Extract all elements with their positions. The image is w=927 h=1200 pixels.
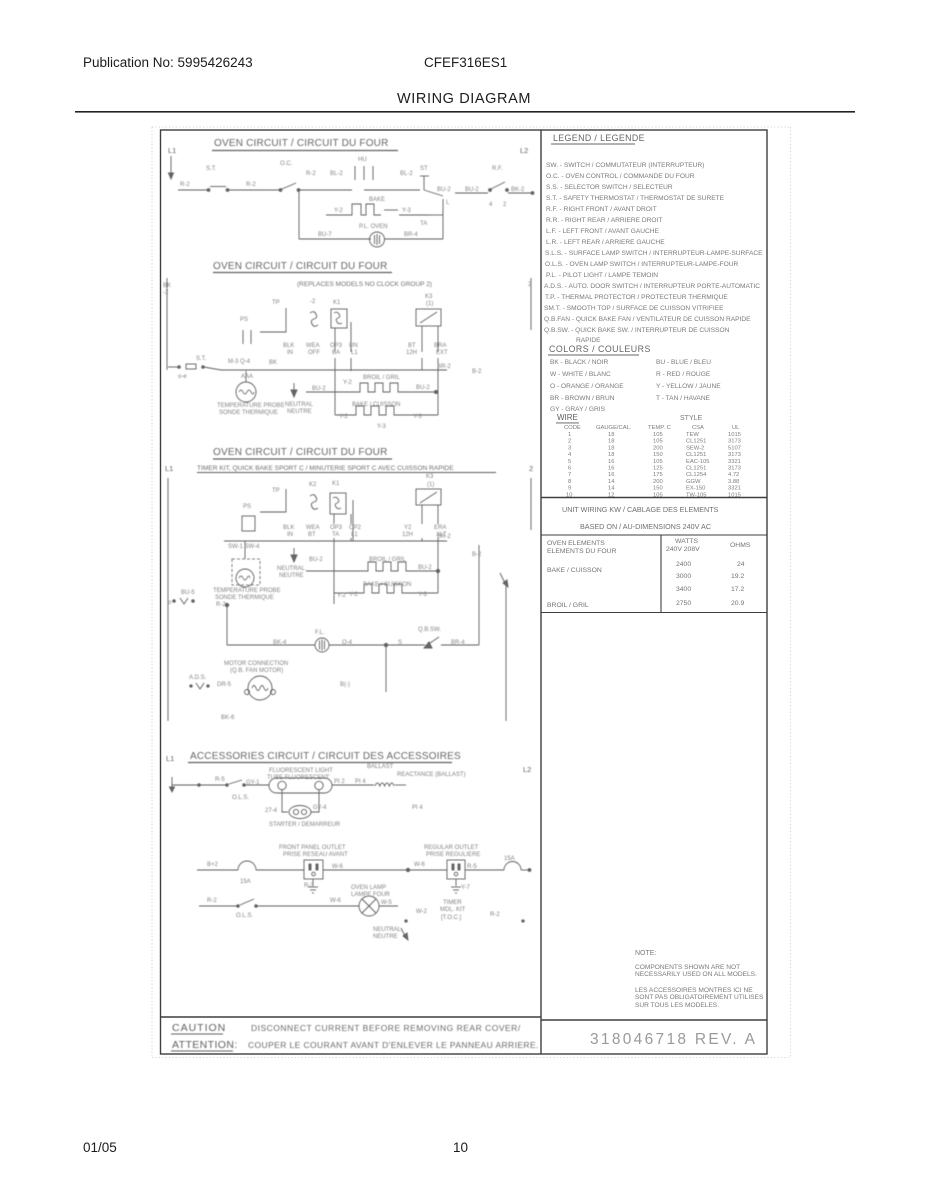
svg-text:NOTE:: NOTE: bbox=[635, 950, 656, 957]
svg-text:BU-5: BU-5 bbox=[181, 590, 195, 596]
svg-text:3173: 3173 bbox=[728, 452, 741, 458]
svg-text:BR-4: BR-4 bbox=[451, 640, 465, 646]
svg-text:2: 2 bbox=[529, 464, 533, 473]
svg-text:Y-3: Y-3 bbox=[418, 592, 427, 598]
svg-text:Y-3: Y-3 bbox=[413, 414, 422, 420]
svg-text:BL-2: BL-2 bbox=[330, 171, 343, 177]
svg-text:COLORS / COULEURS: COLORS / COULEURS bbox=[549, 344, 651, 354]
svg-text:NEUTRAL: NEUTRAL bbox=[277, 566, 306, 572]
svg-text:DISCONNECT CURRENT BEFORE REMO: DISCONNECT CURRENT BEFORE REMOVING REAR … bbox=[251, 1023, 521, 1033]
svg-text:10: 10 bbox=[453, 1140, 468, 1155]
svg-text:-2: -2 bbox=[163, 290, 169, 296]
svg-text:L1: L1 bbox=[168, 146, 176, 155]
svg-text:16: 16 bbox=[608, 472, 614, 478]
svg-text:L1: L1 bbox=[166, 754, 174, 763]
svg-text:7: 7 bbox=[568, 472, 571, 478]
caution box top line bbox=[161, 1016, 542, 1018]
svg-text:Q.B.FAN - QUICK BAKE FAN / VEN: Q.B.FAN - QUICK BAKE FAN / VENTILATEUR D… bbox=[544, 316, 751, 323]
svg-text:CL1254: CL1254 bbox=[686, 472, 707, 478]
svg-text:105: 105 bbox=[653, 439, 663, 445]
svg-text:K3: K3 bbox=[425, 294, 433, 300]
svg-text:W-6: W-6 bbox=[414, 862, 426, 868]
row1 fluorescent bbox=[171, 777, 173, 790]
svg-text:FLUORESCENT LIGHT: FLUORESCENT LIGHT bbox=[269, 768, 333, 774]
svg-text:W-6: W-6 bbox=[332, 864, 344, 870]
svg-text:PI 2: PI 2 bbox=[334, 779, 345, 785]
svg-text:200: 200 bbox=[653, 445, 663, 451]
svg-text:NEUTRAL: NEUTRAL bbox=[285, 402, 314, 408]
svg-text:OVEN ELEMENTS: OVEN ELEMENTS bbox=[547, 540, 605, 547]
svg-text:BA: BA bbox=[332, 350, 340, 356]
svg-text:BROIL / GRIL: BROIL / GRIL bbox=[547, 602, 589, 609]
svg-text:16: 16 bbox=[608, 459, 614, 465]
svg-text:Q.B.SW.: Q.B.SW. bbox=[418, 627, 441, 633]
svg-text:TEMPERATURE PROBE: TEMPERATURE PROBE bbox=[217, 403, 285, 409]
svg-text:K3: K3 bbox=[426, 474, 434, 480]
svg-text:LAMPE FOUR: LAMPE FOUR bbox=[351, 892, 391, 898]
svg-text:NEUTRE: NEUTRE bbox=[287, 409, 312, 415]
svg-text:S.L.S. - SURFACE LAMP SWITCH /: S.L.S. - SURFACE LAMP SWITCH / INTERRUPT… bbox=[545, 250, 763, 257]
svg-text:150: 150 bbox=[653, 486, 663, 492]
footer bbox=[83, 1140, 468, 1155]
svg-text:MDL. KIT: MDL. KIT bbox=[440, 907, 466, 913]
svg-text:BU-2: BU-2 bbox=[312, 386, 326, 392]
svg-text:SEW-2: SEW-2 bbox=[686, 445, 704, 451]
svg-text:OFF: OFF bbox=[308, 350, 320, 356]
svg-text:OHMS: OHMS bbox=[730, 542, 751, 549]
svg-text:Publication No: 5995426243: Publication No: 5995426243 bbox=[83, 55, 253, 70]
svg-text:L.F. - LEFT FRONT / AVANT GA: L.F. - LEFT FRONT / AVANT GAUCHE bbox=[546, 228, 660, 235]
svg-text:UN: UN bbox=[349, 343, 358, 349]
row2 outlets bbox=[197, 869, 238, 871]
ballast coil bbox=[375, 783, 394, 786]
svg-text:18: 18 bbox=[608, 432, 614, 438]
note bbox=[635, 950, 764, 1009]
svg-text:L1: L1 bbox=[351, 350, 358, 356]
PS box bbox=[242, 516, 255, 531]
svg-text:M-3 Q-4: M-3 Q-4 bbox=[228, 359, 251, 365]
K2 relay box bbox=[331, 309, 347, 328]
svg-text:CL1251: CL1251 bbox=[686, 466, 706, 472]
svg-text:B-2: B-2 bbox=[472, 369, 482, 375]
svg-text:27-4: 27-4 bbox=[265, 808, 278, 814]
svg-text:BU-7: BU-7 bbox=[318, 232, 332, 238]
svg-text:Y-2: Y-2 bbox=[339, 414, 348, 420]
svg-text:B-2: B-2 bbox=[472, 552, 482, 558]
svg-text:ERA: ERA bbox=[434, 525, 446, 531]
svg-text:DR-5: DR-5 bbox=[217, 682, 232, 688]
svg-text:BK-4: BK-4 bbox=[273, 640, 287, 646]
K2 relay box bbox=[330, 493, 346, 514]
svg-text:PRISE REGULIERE: PRISE REGULIERE bbox=[426, 852, 480, 858]
elements table bbox=[541, 535, 767, 613]
svg-text:24: 24 bbox=[737, 561, 745, 568]
main rail bbox=[221, 369, 447, 371]
rev cell top line bbox=[541, 1019, 767, 1021]
N arrow right bbox=[500, 573, 506, 585]
svg-text:PRISE RESEAU AVANT: PRISE RESEAU AVANT bbox=[283, 852, 348, 858]
svg-text:L2: L2 bbox=[523, 765, 531, 774]
svg-text:BR-2: BR-2 bbox=[437, 534, 451, 540]
svg-text:O.C. - OVEN CONTROL / COMMAN: O.C. - OVEN CONTROL / COMMANDE DU FOUR bbox=[546, 173, 695, 180]
svg-text:12H: 12H bbox=[406, 350, 417, 356]
svg-text:BAKE / CUISSON: BAKE / CUISSON bbox=[547, 567, 602, 574]
svg-text:L.R. - LEFT REAR / ARRIERE G: L.R. - LEFT REAR / ARRIERE GAUCHE bbox=[546, 239, 665, 246]
junction and drop bbox=[225, 603, 228, 606]
temp probe bbox=[236, 382, 256, 402]
svg-text:Y-2: Y-2 bbox=[337, 593, 346, 599]
svg-text:COMPONENTS SHOWN ARE NOT: COMPONENTS SHOWN ARE NOT bbox=[635, 964, 740, 971]
svg-text:S: S bbox=[398, 640, 402, 646]
svg-text:OVEN CIRCUIT / CIRCUIT DU FOUR: OVEN CIRCUIT / CIRCUIT DU FOUR bbox=[214, 138, 389, 149]
svg-text:18: 18 bbox=[608, 452, 614, 458]
svg-text:SONDE THERMIQUE: SONDE THERMIQUE bbox=[215, 595, 274, 601]
right sub chain bbox=[455, 192, 488, 194]
svg-text:BROIL / GRIL: BROIL / GRIL bbox=[363, 375, 400, 381]
svg-text:EX-150: EX-150 bbox=[686, 486, 705, 492]
svg-text:LEGEND / LEGENDE: LEGEND / LEGENDE bbox=[553, 133, 645, 143]
broil element bbox=[306, 391, 357, 393]
svg-text:REACTANCE (BALLAST): REACTANCE (BALLAST) bbox=[397, 772, 466, 778]
svg-text:BU-2: BU-2 bbox=[465, 187, 479, 193]
svg-text:K1: K1 bbox=[332, 481, 340, 487]
svg-text:BAKE / CUISSON: BAKE / CUISSON bbox=[352, 402, 400, 408]
svg-text:O - ORANGE / ORANGE: O - ORANGE / ORANGE bbox=[550, 383, 624, 390]
svg-text:FRONT PANEL OUTLET: FRONT PANEL OUTLET bbox=[279, 845, 346, 851]
svg-text:STARTER / DEMARREUR: STARTER / DEMARREUR bbox=[269, 822, 341, 828]
svg-text:BT: BT bbox=[408, 343, 416, 349]
svg-text:GY-4: GY-4 bbox=[313, 805, 327, 811]
svg-text:T - TAN / HAVANE: T - TAN / HAVANE bbox=[656, 395, 711, 402]
S curl bbox=[310, 312, 318, 327]
svg-text:R.R. - RIGHT REAR / ARRIERE: R.R. - RIGHT REAR / ARRIERE DROIT bbox=[546, 217, 662, 224]
svg-text:105: 105 bbox=[653, 459, 663, 465]
svg-text:BK-2: BK-2 bbox=[511, 187, 525, 193]
svg-text:NEUTRAL: NEUTRAL bbox=[373, 927, 402, 933]
left rail bbox=[167, 478, 169, 721]
svg-text:K2: K2 bbox=[309, 482, 317, 488]
svg-text:SONDE THERMIQUE: SONDE THERMIQUE bbox=[219, 410, 278, 416]
svg-text:R-2: R-2 bbox=[490, 912, 500, 918]
svg-text:NEUTRE: NEUTRE bbox=[279, 573, 304, 579]
svg-text:EAC-105: EAC-105 bbox=[686, 459, 710, 465]
svg-text:Y-3: Y-3 bbox=[377, 424, 386, 430]
svg-text:R-5: R-5 bbox=[215, 777, 225, 783]
svg-text:STYLE: STYLE bbox=[680, 415, 703, 422]
TP step wire bbox=[260, 489, 286, 512]
svg-text:OP3: OP3 bbox=[330, 525, 343, 531]
svg-text:20.9: 20.9 bbox=[731, 600, 744, 607]
faint scan page margin dotted border bbox=[152, 127, 791, 1058]
svg-text:19.2: 19.2 bbox=[731, 573, 744, 580]
svg-text:GAUGE/CAL.: GAUGE/CAL. bbox=[596, 425, 632, 431]
right rail bbox=[530, 278, 532, 330]
svg-text:o: o bbox=[168, 600, 172, 606]
TP step wire bbox=[260, 308, 286, 332]
svg-text:4: 4 bbox=[568, 452, 572, 458]
svg-text:01/05: 01/05 bbox=[83, 1140, 117, 1155]
svg-text:A.D.S. - AUTO. DOOR SWITCH / I: A.D.S. - AUTO. DOOR SWITCH / INTERRUPTEU… bbox=[544, 283, 760, 290]
svg-text:BR-2: BR-2 bbox=[437, 364, 451, 370]
svg-text:W-2: W-2 bbox=[416, 909, 428, 915]
svg-text:-2: -2 bbox=[310, 299, 316, 305]
broil element bbox=[306, 570, 365, 572]
svg-text:Y-7: Y-7 bbox=[461, 885, 470, 891]
svg-text:S.S. - SELECTOR SWITCH / SEL: S.S. - SELECTOR SWITCH / SELECTEUR bbox=[546, 184, 673, 191]
svg-text:F.L.: F.L. bbox=[315, 630, 325, 636]
svg-text:WIRING DIAGRAM: WIRING DIAGRAM bbox=[397, 91, 531, 107]
temp probe dashed box bbox=[232, 559, 260, 585]
svg-text:[T.O.C.]: [T.O.C.] bbox=[441, 915, 462, 921]
svg-text:GGW: GGW bbox=[686, 479, 701, 485]
svg-text:O.L.S.: O.L.S. bbox=[232, 795, 249, 801]
svg-text:WEA: WEA bbox=[306, 343, 320, 349]
svg-text:TP: TP bbox=[272, 488, 280, 494]
svg-text:16: 16 bbox=[608, 466, 614, 472]
svg-text:BK: BK bbox=[269, 360, 277, 366]
svg-text:UL: UL bbox=[732, 425, 740, 431]
svg-text:BU-2: BU-2 bbox=[309, 557, 323, 563]
row3 oven lamp bbox=[199, 905, 237, 907]
vertical below junction bbox=[385, 645, 387, 692]
K3 relay box bbox=[416, 489, 441, 505]
motor bbox=[248, 676, 272, 700]
svg-text:3400: 3400 bbox=[676, 586, 691, 593]
svg-text:BR - BROWN / BRUN: BR - BROWN / BRUN bbox=[550, 395, 615, 402]
svg-text:TEMPERATURE PROBE: TEMPERATURE PROBE bbox=[213, 588, 281, 594]
svg-text:W - WHITE / BLANC: W - WHITE / BLANC bbox=[550, 371, 611, 378]
svg-text:PI 4: PI 4 bbox=[355, 779, 366, 785]
svg-text:BK: BK bbox=[163, 283, 171, 289]
svg-text:HU: HU bbox=[358, 157, 367, 163]
svg-text:GY - GRAY / GRIS: GY - GRAY / GRIS bbox=[550, 406, 606, 413]
svg-text:12H: 12H bbox=[402, 532, 413, 538]
svg-text:B(-): B(-) bbox=[340, 682, 350, 688]
svg-text:L: L bbox=[446, 200, 450, 206]
svg-text:ACCESSORIES CIRCUIT / CIRCUIT: ACCESSORIES CIRCUIT / CIRCUIT DES ACCESS… bbox=[190, 751, 461, 762]
starter loop bbox=[282, 790, 288, 812]
svg-text:OP2: OP2 bbox=[349, 525, 362, 531]
divider under wire table bbox=[541, 497, 767, 499]
PS capacitor bars bbox=[242, 330, 244, 344]
svg-text:Y-2: Y-2 bbox=[334, 208, 343, 214]
svg-text:BROIL / GRIL: BROIL / GRIL bbox=[369, 557, 406, 563]
svg-text:TA: TA bbox=[420, 221, 427, 227]
svg-text:Y-3: Y-3 bbox=[402, 208, 411, 214]
divider diagram / legend bbox=[540, 130, 542, 1054]
svg-text:Y-2: Y-2 bbox=[349, 592, 358, 598]
S curl bbox=[310, 495, 318, 510]
svg-text:CAUTION: CAUTION bbox=[172, 1022, 226, 1034]
svg-text:L1: L1 bbox=[165, 464, 173, 473]
svg-text:NEUTRE: NEUTRE bbox=[373, 934, 398, 940]
svg-text:EXT: EXT bbox=[436, 350, 448, 356]
svg-text:O.C.: O.C. bbox=[280, 161, 293, 167]
svg-text:OVEN CIRCUIT / CIRCUIT DU FOUR: OVEN CIRCUIT / CIRCUIT DU FOUR bbox=[213, 447, 388, 458]
svg-text:L2: L2 bbox=[520, 146, 528, 155]
svg-text:4.72: 4.72 bbox=[728, 472, 739, 478]
svg-text:GY-1: GY-1 bbox=[246, 780, 260, 786]
svg-text:BU-2: BU-2 bbox=[437, 187, 451, 193]
svg-text:TIMER KIT, QUICK BAKE SPORT C: TIMER KIT, QUICK BAKE SPORT C / MINUTERI… bbox=[197, 465, 454, 472]
svg-text:WEA: WEA bbox=[306, 525, 320, 531]
right long vertical bbox=[478, 545, 480, 645]
svg-text:R-2: R-2 bbox=[180, 182, 190, 188]
svg-text:ATTENTION:: ATTENTION: bbox=[172, 1039, 238, 1051]
svg-text:R.F. - RIGHT FRONT / AVANT D: R.F. - RIGHT FRONT / AVANT DROIT bbox=[546, 206, 657, 213]
svg-text:105: 105 bbox=[653, 432, 663, 438]
svg-text:BAKE / CUISSON: BAKE / CUISSON bbox=[363, 582, 411, 588]
svg-text:R-2: R-2 bbox=[246, 182, 256, 188]
svg-text:3: 3 bbox=[568, 445, 571, 451]
svg-text:MOTOR CONNECTION: MOTOR CONNECTION bbox=[224, 661, 288, 667]
svg-text:BLK: BLK bbox=[283, 343, 294, 349]
svg-text:6: 6 bbox=[568, 466, 571, 472]
svg-text:WIRE: WIRE bbox=[557, 413, 578, 422]
svg-text:TIMER: TIMER bbox=[443, 900, 462, 906]
bake element bbox=[335, 406, 410, 415]
svg-text:18: 18 bbox=[608, 439, 614, 445]
svg-text:S.T.: S.T. bbox=[196, 356, 207, 362]
svg-text:OP3: OP3 bbox=[330, 343, 343, 349]
svg-text:O.L.S.: O.L.S. bbox=[236, 913, 253, 919]
svg-text:BRA: BRA bbox=[434, 343, 446, 349]
svg-text:200: 200 bbox=[653, 479, 663, 485]
right short rail bbox=[530, 478, 532, 530]
svg-text:W-5: W-5 bbox=[381, 900, 393, 906]
svg-text:R-2: R-2 bbox=[306, 171, 316, 177]
svg-text:R-5: R-5 bbox=[467, 864, 477, 870]
svg-text:5107: 5107 bbox=[728, 445, 741, 451]
svg-text:o-e: o-e bbox=[178, 374, 187, 380]
neutral arrow bbox=[293, 383, 295, 393]
svg-text:2: 2 bbox=[568, 439, 571, 445]
svg-text:SM.T. - SMOOTH TOP / SURFACE D: SM.T. - SMOOTH TOP / SURFACE DE CUISSON … bbox=[544, 305, 724, 312]
svg-text:4: 4 bbox=[489, 202, 493, 208]
wire chain top bbox=[178, 189, 207, 191]
svg-text:WATTS: WATTS bbox=[675, 538, 698, 545]
bottom rail bbox=[227, 644, 315, 646]
svg-text:BASED ON / AU-DIMENSIONS 240V: BASED ON / AU-DIMENSIONS 240V AC bbox=[580, 522, 711, 531]
svg-text:SW. - SWITCH / COMMUTATEUR: SW. - SWITCH / COMMUTATEUR (INTERRUPTEUR… bbox=[546, 162, 704, 169]
unit wiring header bbox=[562, 505, 719, 531]
svg-text:R - RED / ROUGE: R - RED / ROUGE bbox=[656, 371, 711, 378]
svg-text:CL1251: CL1251 bbox=[686, 452, 706, 458]
K3 relay box bbox=[416, 309, 441, 326]
svg-text:BAKE: BAKE bbox=[369, 197, 385, 203]
neutral arrow bottom bbox=[401, 928, 406, 938]
svg-text:BR-4: BR-4 bbox=[404, 232, 418, 238]
svg-text:TP: TP bbox=[272, 300, 280, 306]
small dots bbox=[405, 920, 407, 922]
svg-text:3000: 3000 bbox=[676, 573, 691, 580]
svg-text:18: 18 bbox=[608, 445, 614, 451]
svg-text:Y-2: Y-2 bbox=[343, 380, 352, 386]
svg-text:3321: 3321 bbox=[728, 486, 741, 492]
svg-text:BALLAST: BALLAST bbox=[367, 764, 394, 770]
svg-text:15A: 15A bbox=[504, 856, 515, 862]
svg-text:R.F.: R.F. bbox=[492, 166, 503, 172]
L1 drop arrow bbox=[170, 156, 172, 176]
svg-text:R-2: R-2 bbox=[216, 602, 226, 608]
svg-text:W-6: W-6 bbox=[330, 898, 342, 904]
svg-text:S.T.: S.T. bbox=[206, 166, 217, 172]
svg-text:BLK: BLK bbox=[283, 525, 294, 531]
svg-text:P.L. OVEN: P.L. OVEN bbox=[359, 224, 388, 230]
svg-text:T.P. - THERMAL PROTECTOR / PR: T.P. - THERMAL PROTECTOR / PROTECTEUR TH… bbox=[545, 294, 728, 301]
svg-text:CFEF316ES1: CFEF316ES1 bbox=[424, 55, 507, 70]
header bbox=[83, 55, 531, 107]
svg-text:TA: TA bbox=[332, 532, 339, 538]
svg-text:17.2: 17.2 bbox=[731, 586, 744, 593]
svg-text:UNIT WIRING KW / CABLAGE DES E: UNIT WIRING KW / CABLAGE DES ELEMENTS bbox=[562, 505, 719, 514]
svg-text:LES ACCESSOIRES MONTRES ICI NE: LES ACCESSOIRES MONTRES ICI NE bbox=[635, 987, 753, 994]
svg-text:9: 9 bbox=[568, 486, 571, 492]
bake waveform bbox=[326, 204, 381, 215]
header rule bbox=[75, 111, 855, 113]
svg-text:(Q.B. FAN MOTOR): (Q.B. FAN MOTOR) bbox=[230, 668, 283, 674]
svg-text:SW-1 SW-4: SW-1 SW-4 bbox=[228, 544, 260, 550]
svg-text:OVEN LAMP: OVEN LAMP bbox=[351, 885, 386, 891]
svg-text:O.L.S. - OVEN LAMP SWITCH / IN: O.L.S. - OVEN LAMP SWITCH / INTERRUPTEUR… bbox=[545, 261, 739, 268]
svg-text:240V 208V: 240V 208V bbox=[666, 546, 700, 553]
svg-text:RAPIDE: RAPIDE bbox=[576, 337, 601, 344]
svg-text:SONT PAS OBLIGATOIREMENT UTILI: SONT PAS OBLIGATOIREMENT UTILISES bbox=[635, 994, 764, 1001]
svg-text:TEW: TEW bbox=[686, 432, 699, 438]
neutral arrow bbox=[293, 548, 295, 558]
svg-text:BT: BT bbox=[308, 532, 316, 538]
svg-text:2750: 2750 bbox=[676, 600, 691, 607]
svg-text:BL-2: BL-2 bbox=[400, 171, 413, 177]
svg-text:(1): (1) bbox=[427, 482, 434, 488]
svg-text:1015: 1015 bbox=[728, 432, 741, 438]
svg-text:O-4: O-4 bbox=[342, 640, 353, 646]
subtitle underline bbox=[197, 472, 496, 474]
motor left contact bbox=[190, 685, 192, 687]
outer border of wiring diagram bbox=[161, 130, 768, 1054]
svg-text:318046718 REV. A: 318046718 REV. A bbox=[590, 1031, 757, 1048]
svg-text:PS: PS bbox=[240, 317, 248, 323]
left rail bbox=[166, 278, 168, 370]
bottom loop with pilot light bbox=[298, 190, 300, 239]
svg-text:S.T. - SAFETY THERMOSTAT / T: S.T. - SAFETY THERMOSTAT / THERMOSTAT DE… bbox=[546, 195, 725, 202]
svg-text:CSA: CSA bbox=[692, 425, 704, 431]
svg-text:8: 8 bbox=[568, 479, 571, 485]
svg-text:B+2: B+2 bbox=[207, 862, 219, 868]
svg-text:Q.B.SW. - QUICK BAKE SW. / INT: Q.B.SW. - QUICK BAKE SW. / INTERRUPTEUR … bbox=[544, 327, 730, 334]
svg-text:Y2: Y2 bbox=[404, 525, 412, 531]
title underline bbox=[212, 150, 398, 152]
svg-text:14: 14 bbox=[608, 486, 615, 492]
svg-text:AAA: AAA bbox=[241, 374, 253, 380]
svg-text:L1: L1 bbox=[351, 532, 358, 538]
left ST contact bbox=[178, 366, 181, 369]
svg-text:14: 14 bbox=[608, 479, 615, 485]
svg-text:COUPER LE COURANT AVANT D'ENLE: COUPER LE COURANT AVANT D'ENLEVER LE PAN… bbox=[248, 1040, 539, 1050]
svg-text:TUBE FLUORESCENT: TUBE FLUORESCENT bbox=[267, 775, 330, 781]
svg-text:3321: 3321 bbox=[728, 459, 741, 465]
svg-text:15A: 15A bbox=[240, 879, 251, 885]
svg-text:IN: IN bbox=[287, 532, 293, 538]
svg-text:P.L. - PILOT LIGHT / LAMPE TE: P.L. - PILOT LIGHT / LAMPE TEMOIN bbox=[546, 272, 658, 279]
svg-text:BK - BLACK / NOIR: BK - BLACK / NOIR bbox=[550, 359, 608, 366]
svg-text:(REPLACES MODELS NO CLOCK GR: (REPLACES MODELS NO CLOCK GROUP 2) bbox=[297, 281, 432, 288]
svg-text:3173: 3173 bbox=[728, 466, 741, 472]
bake element bbox=[334, 584, 416, 593]
svg-text:Y - YELLOW / JAUNE: Y - YELLOW / JAUNE bbox=[656, 383, 721, 390]
svg-text:OVEN CIRCUIT / CIRCUIT DU FOUR: OVEN CIRCUIT / CIRCUIT DU FOUR bbox=[213, 261, 388, 272]
svg-text:(1): (1) bbox=[426, 301, 433, 307]
